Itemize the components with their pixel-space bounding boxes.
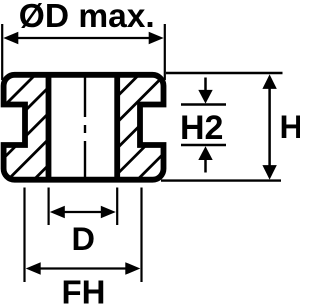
H2 upper line	[181, 103, 226, 106]
svg-text:ØD max.: ØD max.	[19, 0, 155, 35]
H2 lower line	[181, 144, 226, 147]
H top arrowhead	[262, 74, 276, 89]
FH dim line	[32, 267, 134, 269]
svg-text:H2: H2	[180, 109, 223, 147]
hatch line c=188	[0, 60, 128, 190]
centerline (dash-dot)	[84, 78, 86, 178]
hatch line c=265	[75, 60, 205, 190]
hatch line c=110	[0, 60, 50, 190]
H2 upper arrow (points down)	[204, 78, 207, 91]
hatch line c=291	[101, 60, 231, 190]
OD right arrowhead	[149, 32, 164, 45]
svg-text:H: H	[280, 109, 301, 145]
FH left arrowhead	[26, 262, 41, 275]
FH left extension line	[23, 188, 25, 283]
H top extension line	[166, 72, 283, 74]
hatching (45deg) clipped to material	[0, 60, 257, 190]
OD dim: left extension line	[1, 24, 3, 80]
D left extension line	[47, 188, 49, 226]
D dim line	[55, 211, 111, 213]
hatch line c=240	[50, 60, 180, 190]
H bottom extension line	[161, 179, 281, 181]
left bore line	[46, 75, 52, 180]
grommet outline with side notches	[4, 75, 164, 180]
OD dim line	[10, 37, 157, 39]
right bore line	[114, 75, 120, 180]
hatch line c=317	[127, 60, 257, 190]
H bottom arrowhead	[262, 165, 276, 180]
D right extension line	[116, 188, 118, 226]
D right arrowhead	[101, 206, 116, 219]
hatch line c=136	[0, 60, 76, 190]
svg-text:D: D	[72, 221, 95, 257]
H dim line	[268, 85, 271, 170]
FH right arrowhead	[125, 262, 140, 275]
OD dim: right extension line	[164, 24, 166, 80]
svg-text:FH: FH	[62, 274, 106, 304]
FH right extension line	[140, 188, 142, 283]
H2 lower arrow (points up)	[204, 160, 207, 173]
D left arrowhead	[50, 206, 65, 219]
OD left arrowhead	[3, 32, 18, 45]
hatch line c=214	[24, 60, 154, 190]
hatch line c=162	[0, 60, 102, 190]
